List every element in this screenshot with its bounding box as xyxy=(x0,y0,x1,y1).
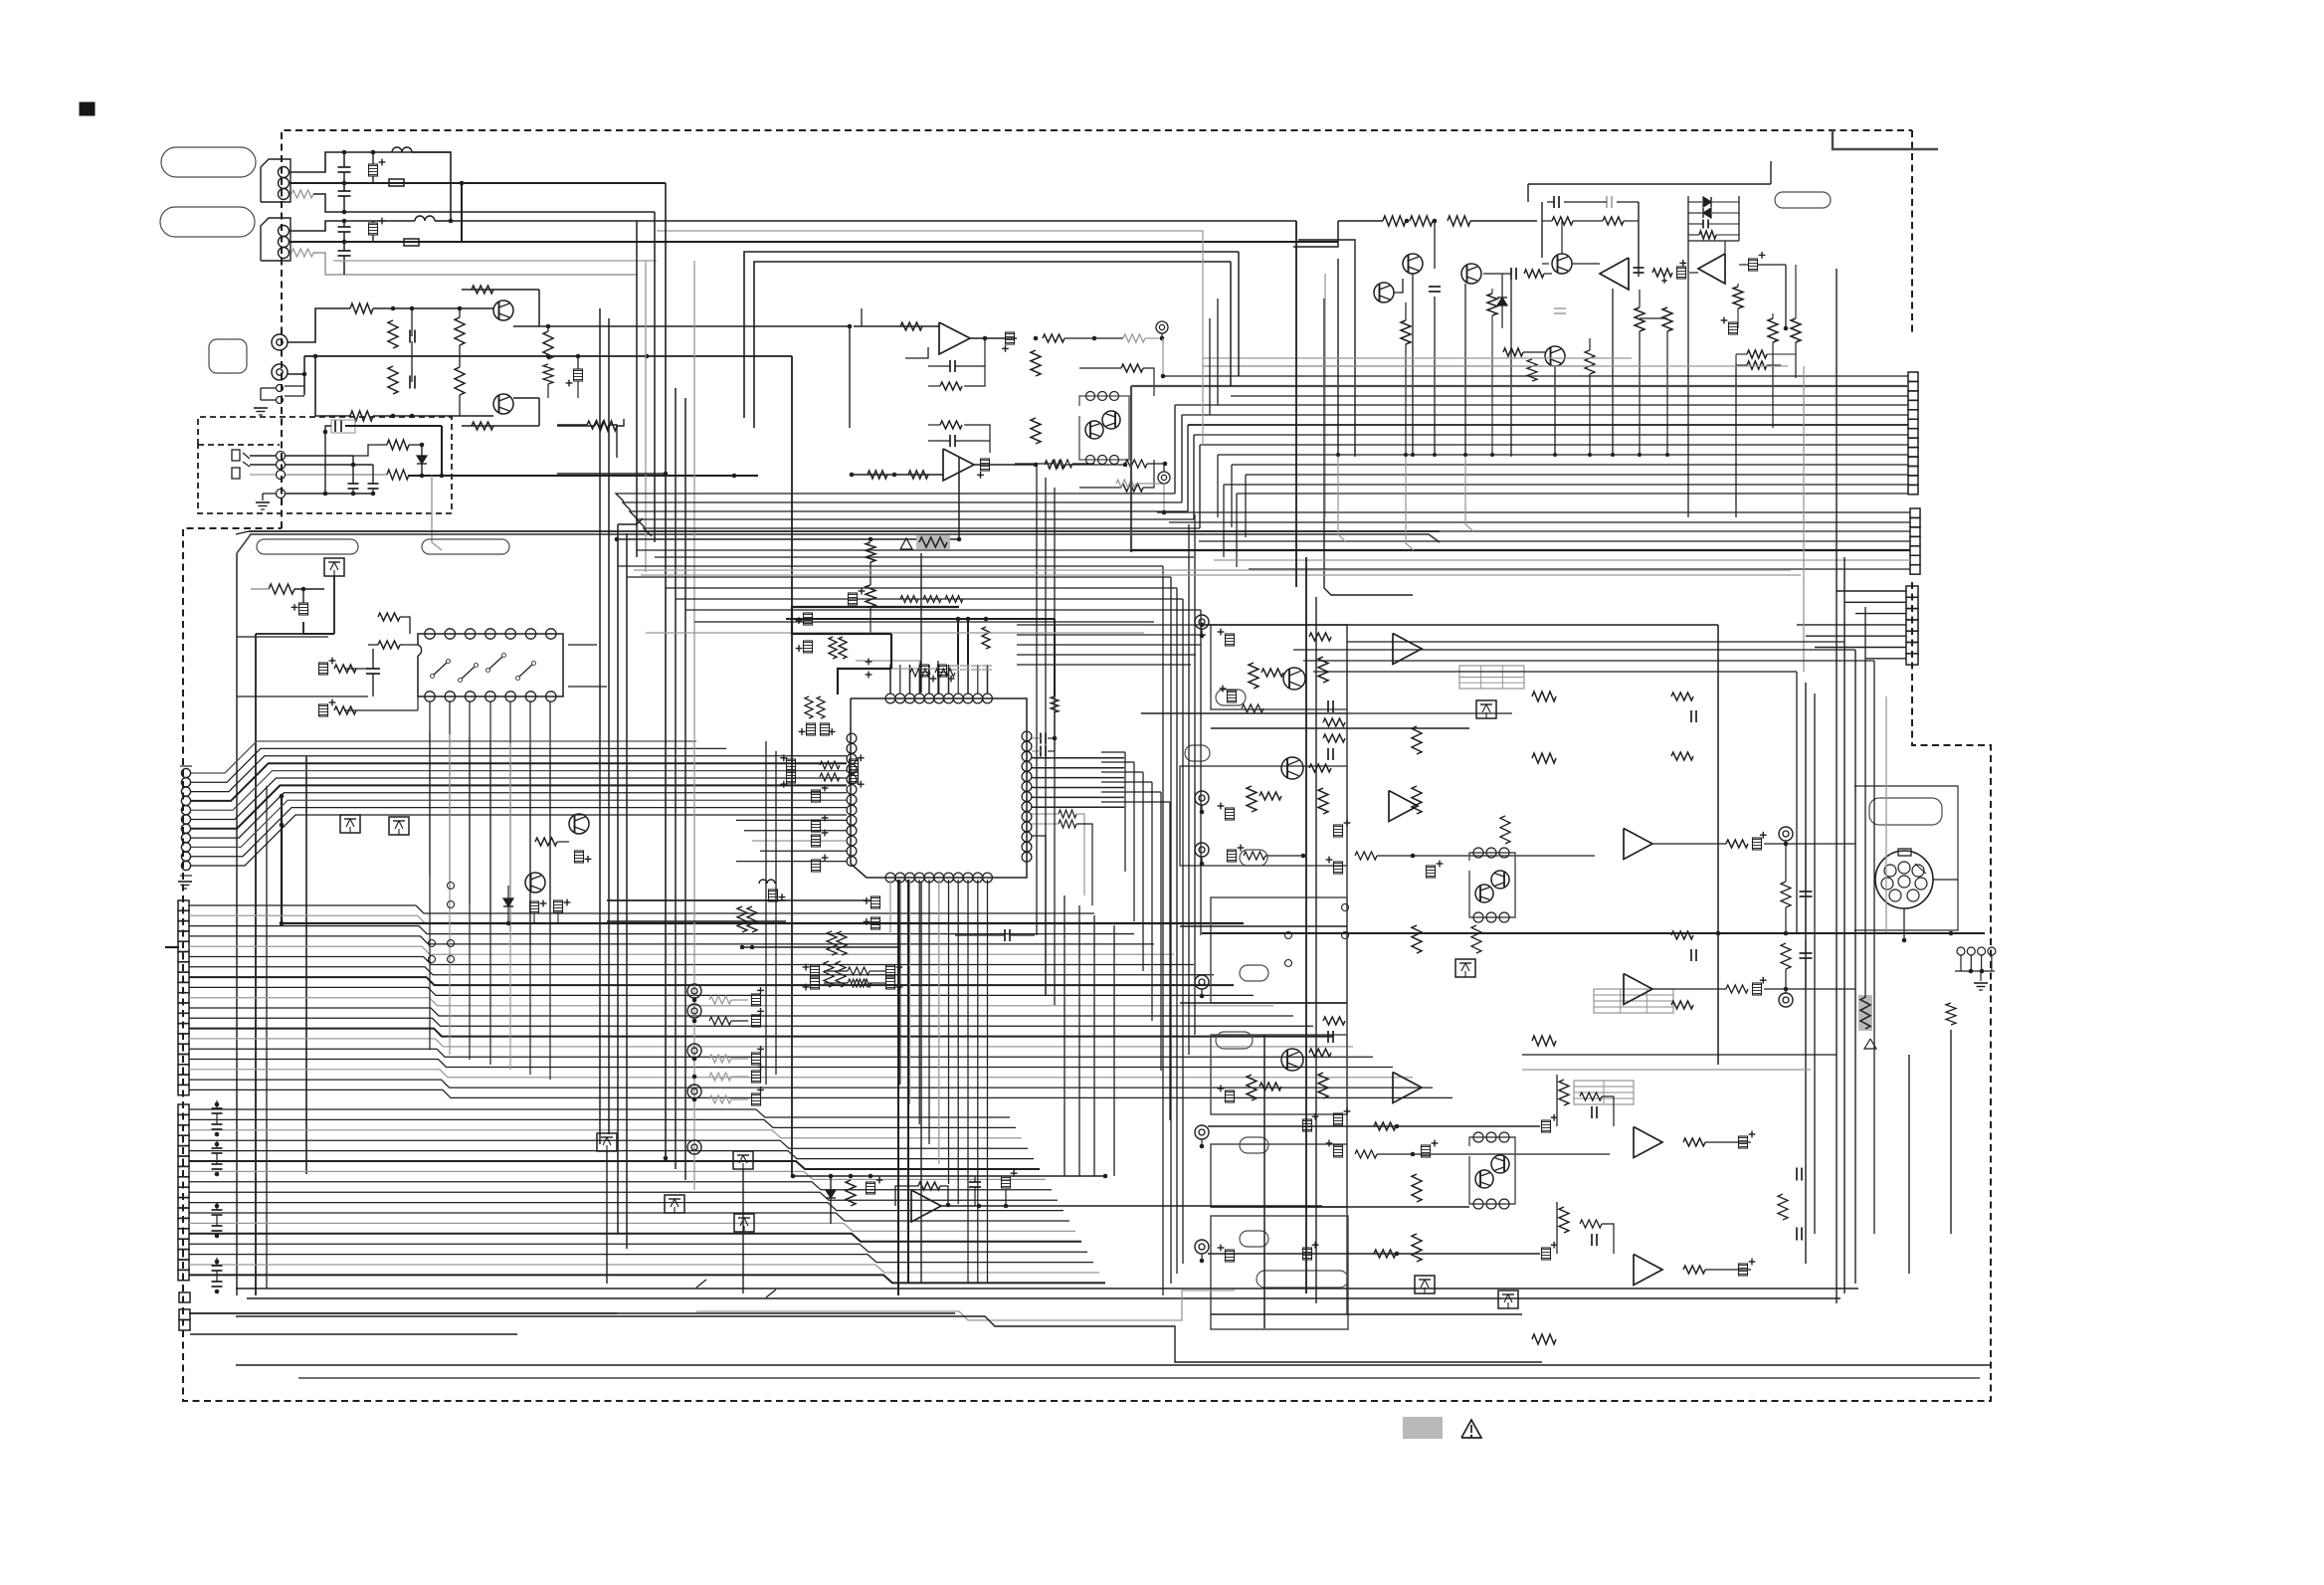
gray pair y573 xyxy=(634,569,1791,571)
resistor box R2 xyxy=(389,179,404,186)
small circles col x1295 xyxy=(1285,932,1292,939)
right area rect outline xyxy=(1854,786,1958,930)
wire L1 out xyxy=(412,152,451,221)
board outline top xyxy=(237,534,1440,553)
ecaps on outs xyxy=(1753,838,1762,850)
ecap A out xyxy=(1006,332,1015,344)
connector CN-A boxes group2 xyxy=(1910,508,1920,517)
thick trunk x896 xyxy=(890,634,892,669)
page section marker xyxy=(80,102,95,115)
ecap+res U2 a xyxy=(319,663,328,675)
channel labels xyxy=(1216,690,1246,705)
vertical ch4 left trunk xyxy=(1263,1035,1265,1328)
4 pin jacks right xyxy=(1957,947,1965,955)
wire jack heavy out xyxy=(441,426,443,476)
transistor Q2 xyxy=(493,394,513,414)
transistor lower xyxy=(525,873,545,892)
wire y320 link xyxy=(1640,317,1667,319)
wire top bus y476-520 left xyxy=(236,531,249,534)
ecaps below U1 xyxy=(871,896,880,908)
board outline left vertical xyxy=(236,553,238,1295)
long line y1372 xyxy=(236,1364,1990,1366)
transistor mid xyxy=(569,814,589,834)
left vertical bundle B1 xyxy=(665,183,667,1158)
vres columns in blocks xyxy=(1412,726,1422,754)
right trunk x1919 xyxy=(1908,1055,1910,1274)
vres x1060 xyxy=(1051,696,1059,712)
gray step line bottom xyxy=(696,1290,1235,1320)
vres mid2 xyxy=(1031,418,1041,444)
caps j xyxy=(348,483,359,485)
B5 top sub-bundle xyxy=(616,494,1175,501)
wire opampB input xyxy=(852,474,943,476)
bundle B6 horizontals to blocks xyxy=(1017,624,1211,626)
resistor trio top U1 xyxy=(910,669,930,677)
wire x964 up xyxy=(958,458,960,539)
resistor ladder v2 xyxy=(388,366,398,394)
capacitor C3a xyxy=(338,226,351,228)
horizontal y732 xyxy=(1211,727,1469,729)
resistor on top rail xyxy=(269,584,294,594)
warning tri right xyxy=(1864,1039,1876,1049)
boxed transistor Q32 xyxy=(665,1195,684,1213)
top net res xyxy=(1552,217,1573,225)
cap x1442 xyxy=(1429,286,1441,288)
boxed transistor Q20 xyxy=(1476,700,1496,718)
resistor v x462 bot xyxy=(455,367,465,395)
connector CN5 boxes xyxy=(178,1104,189,1114)
vertical x308 xyxy=(305,756,307,1174)
wire thick down x257 xyxy=(256,633,334,635)
bundle wires to CN-A group2 xyxy=(1157,511,1910,513)
cap pairs CN5 xyxy=(212,1107,223,1109)
sec opamps right xyxy=(1624,829,1652,860)
vres pair y948 xyxy=(827,931,837,955)
electrolytic C4 xyxy=(369,223,378,235)
res B to term xyxy=(1125,460,1147,468)
muting caps out xyxy=(969,1181,981,1183)
wire gnd pins to bus xyxy=(285,385,304,387)
vres x1676 xyxy=(1662,307,1672,331)
pack out res xyxy=(1053,460,1072,468)
wire QD base xyxy=(1542,263,1549,265)
top net frame xyxy=(1541,202,1543,258)
gray bottom warning box xyxy=(1403,1417,1443,1439)
res to term xyxy=(1123,334,1145,342)
long bottom lines xyxy=(236,1288,1858,1289)
vres pair at IC top-left xyxy=(805,696,813,718)
x1303 trunk xyxy=(1295,221,1297,587)
Q2 out line xyxy=(513,397,539,399)
capacitor C1b xyxy=(338,190,351,192)
RCA jack IN-L xyxy=(272,334,288,350)
IC U1 body xyxy=(851,698,1027,878)
wire contact4 xyxy=(263,493,276,495)
preamp transistors xyxy=(1283,668,1305,690)
ecaps by terminals xyxy=(1226,634,1235,646)
ecap B out xyxy=(981,459,990,471)
feedback cap ch1 xyxy=(1327,700,1329,712)
jack ground pins xyxy=(277,385,284,392)
ecap row ch2 xyxy=(1228,850,1237,862)
resistor box R4 xyxy=(404,239,419,246)
wires U1 left pins xyxy=(736,819,847,821)
bus corner x1060 xyxy=(1054,619,1056,696)
op-amp U3B xyxy=(943,449,974,481)
ground under CN3 xyxy=(178,881,192,883)
IC U1 bottom pins xyxy=(885,873,895,883)
resistor Rj1 xyxy=(387,440,409,450)
IC U2 bottom pins xyxy=(425,692,435,701)
res pack feedback 1 xyxy=(1532,753,1556,763)
bus y952 xyxy=(742,946,900,948)
cap gray x1568 xyxy=(1554,307,1566,309)
label near DIN xyxy=(1869,798,1942,825)
capacitor C3b xyxy=(338,250,351,252)
boxed transistor Q30 xyxy=(597,1133,617,1151)
resistor v x551 b xyxy=(543,364,553,384)
warning triangle small xyxy=(900,538,912,549)
ch4 out line xyxy=(1208,1253,1540,1255)
jumper circles xyxy=(448,883,455,890)
wire J1 pin1 to filter xyxy=(289,152,451,172)
wire opamp A in2 xyxy=(905,347,928,358)
vres pair right xyxy=(1768,318,1778,342)
sec feedback net 2 xyxy=(1671,931,1693,939)
ch3 out line xyxy=(1208,1125,1540,1127)
boxed transistor Q22 xyxy=(1415,1276,1435,1293)
boxed transistor QA2 xyxy=(389,817,409,835)
small res row far above U1 xyxy=(900,596,918,603)
res rows mid xyxy=(1355,852,1377,860)
ecap x1742 xyxy=(1729,322,1738,334)
wire right drop x1795 xyxy=(1785,265,1787,328)
res x1961 v xyxy=(1946,1003,1956,1025)
ground stub jack xyxy=(262,494,264,500)
res by mid transistor xyxy=(535,838,557,846)
connector J2 pins xyxy=(279,226,290,237)
extra center verticals xyxy=(1036,464,1038,935)
wire trunk x375 xyxy=(372,465,374,484)
long label bottom xyxy=(1257,1271,1348,1288)
op-amp U4 xyxy=(1600,258,1629,290)
cap after U4 xyxy=(1634,267,1645,269)
U-loop wires upper xyxy=(744,252,1239,418)
diode up x1510 xyxy=(1497,297,1507,305)
resistor ladder v1 xyxy=(388,320,398,348)
terminal stubs xyxy=(1201,629,1203,636)
horizontal mid y1008 xyxy=(1180,1002,1347,1004)
label LINE IN 1 xyxy=(161,147,256,177)
power pack PK2 xyxy=(1469,1137,1515,1204)
res after U4 xyxy=(1652,269,1672,277)
wire R2 to trunk2 xyxy=(313,253,637,275)
caps right col xyxy=(1800,891,1813,892)
wire x854 down xyxy=(849,326,851,428)
sec out res 2 xyxy=(1726,985,1748,993)
sec amp ch3 feedback xyxy=(1559,1080,1569,1105)
terminals column xyxy=(1195,615,1209,629)
passives left of U1: caps xyxy=(787,759,796,771)
preamp res clusters ch2 xyxy=(1247,786,1257,812)
pack feedback res bot xyxy=(1121,484,1143,492)
top net caps xyxy=(1553,196,1555,208)
wire pre1 line xyxy=(373,307,493,309)
feedback RC B xyxy=(940,421,962,429)
top bus y622 thick xyxy=(786,618,1055,620)
wire left drop2 xyxy=(1298,240,1355,249)
bus drop x306 xyxy=(303,356,305,395)
wire Q5 down xyxy=(303,622,334,634)
wires U1 bottom pins down xyxy=(889,880,891,935)
wire bundle CN4 xyxy=(189,905,1094,913)
block outlines xyxy=(1211,625,1347,709)
wires U1 right pins xyxy=(1032,757,1124,759)
spec table C xyxy=(1574,1081,1634,1104)
transistor QD xyxy=(1552,254,1572,274)
label AUX xyxy=(209,339,247,373)
terminals col x698 xyxy=(687,984,701,998)
verticals from U2 region down xyxy=(429,731,431,1050)
wires to CN-B xyxy=(1837,590,1906,592)
vres below FR xyxy=(866,542,875,562)
pack P1 bottom pins xyxy=(1086,456,1095,465)
sec out res 3 xyxy=(1683,1138,1705,1146)
res row y988 xyxy=(852,979,871,987)
IC U1 left pins xyxy=(847,733,857,743)
vres pair below IC xyxy=(737,906,747,932)
res pair bottom right xyxy=(1747,350,1767,358)
wires U1 right pins gray xyxy=(1059,810,1076,818)
connector CN-B boxes xyxy=(1906,586,1918,597)
vres x1648 xyxy=(1635,307,1645,331)
transistor pack P1 body xyxy=(1079,396,1129,460)
ecap pair lower xyxy=(530,901,539,913)
dash mark left edge xyxy=(165,946,179,948)
wire y534 bus xyxy=(249,530,1440,532)
phone jack symbol 1 xyxy=(232,450,240,461)
IC U1 right pins xyxy=(1022,731,1032,741)
diode ladder xyxy=(1703,197,1711,207)
transistor QA xyxy=(1403,254,1423,274)
terminal T1 xyxy=(1156,321,1168,333)
wire J2 heavy out xyxy=(462,241,1338,243)
gray fusible res right xyxy=(1858,995,1872,1031)
border notch top-right xyxy=(1833,130,1938,149)
gray feeds above U1 xyxy=(856,660,920,662)
horizontal mid y931 xyxy=(1180,925,1347,927)
wire din right link xyxy=(1933,879,1958,881)
inductor L1 xyxy=(392,147,402,152)
Q1 collector loop xyxy=(462,289,539,291)
ecap hatch mid2 xyxy=(1422,1145,1431,1157)
right long horizontals xyxy=(1202,624,1718,626)
muting diode xyxy=(826,1190,836,1198)
resistor R input1 xyxy=(291,190,313,198)
boxed transistor Q5 xyxy=(324,558,344,576)
res on y427 xyxy=(587,421,609,429)
cap ladder1 xyxy=(409,330,411,343)
wire U2 right out xyxy=(568,644,597,646)
feedback cap ch2 xyxy=(1327,748,1329,760)
IC U2 body xyxy=(418,634,563,696)
boxed transistor Q23 xyxy=(1498,1290,1518,1308)
gnd bus y938 right xyxy=(1202,932,1985,934)
terminal T2 xyxy=(1158,472,1170,484)
wire x866 branch xyxy=(861,308,863,326)
wire top rail xyxy=(251,588,269,590)
wire y360 gray xyxy=(1203,357,1632,359)
wire J2 pin1 to filter xyxy=(289,221,415,231)
fusible resistor FR1 gray highlight xyxy=(916,535,950,549)
ecap+res U2 b xyxy=(319,704,328,716)
wire J1 main line xyxy=(289,182,666,184)
wire J2 main line xyxy=(289,241,462,243)
main bus y358 xyxy=(304,355,792,357)
ecap right of U5 xyxy=(1749,259,1758,271)
transistor QE xyxy=(1545,346,1565,366)
wires ecap verticals xyxy=(919,661,921,693)
wire contact3 gray xyxy=(250,474,276,476)
pack feedback res top xyxy=(1121,364,1143,372)
spec table A xyxy=(1459,666,1524,689)
wire y542 xyxy=(617,538,959,540)
T2 drop xyxy=(1163,484,1165,512)
block right edge trunk xyxy=(1346,625,1348,1314)
right trunk x1961 xyxy=(1950,1030,1952,1234)
passives left of U1: ecaps xyxy=(812,790,821,802)
wire RCA-R to amp2 xyxy=(315,356,350,416)
pack P1 top pins xyxy=(1086,392,1095,401)
feedback cap ch3 xyxy=(1327,1031,1329,1043)
phone jack symbol 2 xyxy=(232,468,240,479)
horizontal y1213 xyxy=(1211,1206,1469,1208)
connector CN4 boxes xyxy=(178,900,189,910)
boxed transistor Q21 xyxy=(1455,959,1475,977)
gnd right xyxy=(1980,971,1982,981)
resistor v x551 a xyxy=(543,331,553,359)
wire QC emitter xyxy=(1483,273,1511,275)
junction dots on y457 xyxy=(1336,453,1340,457)
muting vres xyxy=(846,1180,856,1206)
wire contact2 xyxy=(250,464,276,466)
vertical x770 set xyxy=(765,741,767,1085)
cap U2 left xyxy=(366,668,380,670)
wire pre2 line xyxy=(373,415,493,417)
vertical link x464 xyxy=(461,183,463,242)
gray res T2 xyxy=(1116,480,1136,488)
gray trunk power xyxy=(1324,274,1326,517)
inductor L2 xyxy=(415,216,425,221)
boxed transistor Q31 xyxy=(733,1151,753,1169)
transistor QB xyxy=(1374,283,1394,302)
resistor up xyxy=(378,613,400,621)
horizontal y1321 xyxy=(1211,1313,1522,1315)
wire L2 link xyxy=(435,220,451,222)
bundle B4 verticals xyxy=(1162,566,1164,1295)
wire QB-QA xyxy=(1394,279,1403,293)
rows y976-988 xyxy=(811,965,820,977)
wire gnd stub xyxy=(261,387,276,389)
main board dashed border xyxy=(282,130,1912,528)
out terminals right xyxy=(1779,827,1793,841)
resistor v x462 top xyxy=(455,317,465,345)
wire horizontal y905 group xyxy=(607,899,786,901)
wire Q31 down xyxy=(742,1169,744,1293)
connector J1 shell xyxy=(261,159,290,202)
wire R to trunk xyxy=(313,194,655,212)
cap+res QC xyxy=(1510,268,1512,280)
thick verticals to bus xyxy=(957,619,959,665)
sec out res 1 xyxy=(1726,840,1748,848)
RCA jack IN-R xyxy=(272,364,288,380)
vres mid xyxy=(1031,350,1041,376)
connector CN-A boxes group1 xyxy=(1908,372,1918,381)
wire trunk x327 xyxy=(324,432,326,494)
wire gray y262 xyxy=(333,260,657,262)
wire contact1 xyxy=(250,455,276,457)
long line y1385 xyxy=(298,1377,1980,1379)
ecap pair at IC top-left xyxy=(807,723,816,735)
cap ladder2 xyxy=(409,376,411,389)
connector J2 shell xyxy=(261,218,290,261)
warning triangle bottom xyxy=(1461,1420,1481,1438)
res after B xyxy=(1045,461,1065,469)
IC U2 switches xyxy=(434,663,447,675)
diode Dj xyxy=(417,456,427,464)
gray cap row above U1 xyxy=(949,665,959,667)
wire RCA-R bus xyxy=(288,373,304,375)
horizontal y717 xyxy=(1141,712,1347,714)
IC U1 top pins xyxy=(885,693,895,703)
boxed transistor QA1 xyxy=(340,815,360,833)
wires U1 top pins up xyxy=(889,665,891,693)
IC U2 top pins xyxy=(425,629,435,639)
power pack PK1 xyxy=(1469,853,1515,917)
feedback RC A xyxy=(949,360,951,372)
thick vertical x283 xyxy=(281,796,283,923)
vres below QB xyxy=(1401,320,1411,344)
vres right col xyxy=(1781,882,1791,907)
thick bus y610 xyxy=(792,607,959,634)
wire U1 last right pin xyxy=(1032,836,1046,995)
muting feedback loop xyxy=(895,1186,918,1206)
gray loop wire xyxy=(657,231,1592,366)
resistor R pre1 xyxy=(350,303,373,313)
wire U2 left resistors xyxy=(378,641,400,649)
bundle wires to CN-A group1 xyxy=(1163,375,1908,377)
wire U5 top feed xyxy=(1724,241,1726,254)
right verticals bundle xyxy=(1836,269,1838,1303)
transistor Q1 xyxy=(493,300,513,320)
three verticals continue with jogs xyxy=(1338,457,1346,542)
pack P1 transistors xyxy=(1085,421,1103,439)
wire B out xyxy=(974,464,1036,466)
transistor QE nets xyxy=(1503,348,1523,356)
ecap rows mid xyxy=(1334,825,1343,837)
board label 1 xyxy=(257,539,358,554)
ecap x581 xyxy=(574,369,583,381)
wire 905 bus xyxy=(607,899,871,901)
vres x1500 xyxy=(1487,294,1497,315)
connector small bottom xyxy=(179,1292,190,1302)
muting ecap xyxy=(867,1182,875,1194)
wire mute bus xyxy=(793,1175,1105,1177)
board label 2 xyxy=(422,539,509,554)
res pair above-left U1 xyxy=(829,637,837,659)
connector CN3 circles xyxy=(181,768,190,777)
wire y527 xyxy=(618,518,643,524)
